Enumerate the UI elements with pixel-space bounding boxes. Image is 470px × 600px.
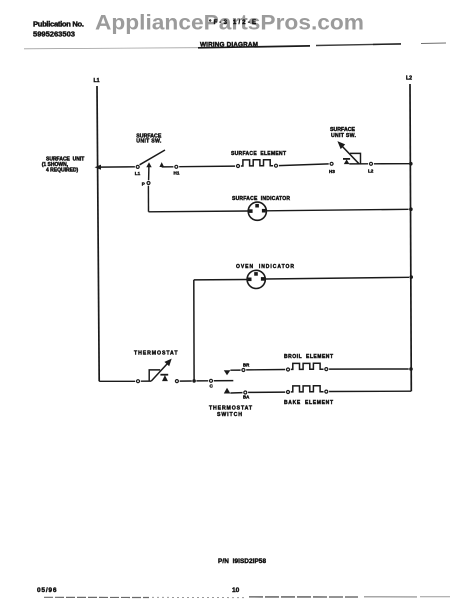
surface element heating squiggle xyxy=(241,160,273,166)
junction dot broil at L2 bus xyxy=(409,367,413,371)
svg-text:P/N I9ISD2IP58: P/N I9ISD2IP58 xyxy=(218,558,266,565)
junction dot thermostat oven branch xyxy=(192,379,196,383)
blade arrowhead right pole xyxy=(337,141,345,149)
svg-text:SWITCH: SWITCH xyxy=(217,412,242,418)
svg-text:5995263503: 5995263503 xyxy=(33,30,75,39)
wire surface indicator to L2 bus xyxy=(266,209,408,211)
wire contact H1 to terminal H1 xyxy=(162,166,174,168)
svg-text:10: 10 xyxy=(232,587,240,594)
wire terminal to thermostat blade xyxy=(141,380,151,382)
wire contact P down to terminal P xyxy=(148,167,150,180)
bottom scan edge line xyxy=(44,596,450,599)
thermostat box xyxy=(149,370,160,381)
svg-text:L2: L2 xyxy=(406,76,412,82)
switch blade right pole xyxy=(340,144,359,164)
bake element left terminal circle xyxy=(287,391,290,394)
contact H1 triangle xyxy=(159,162,164,167)
svg-text:OVEN INDICATOR: OVEN INDICATOR xyxy=(236,264,294,270)
svg-text:UNIT SW.: UNIT SW. xyxy=(331,133,357,139)
junction arrow at L1 bus xyxy=(95,165,101,170)
surface unit switch SW2 label xyxy=(330,127,357,139)
wire L1 bus to thermostat xyxy=(99,380,135,382)
svg-text:L2: L2 xyxy=(368,169,374,174)
svg-text:SURFACE INDICATOR: SURFACE INDICATOR xyxy=(232,196,290,202)
svg-text:L1: L1 xyxy=(94,78,100,84)
terminal BA circle xyxy=(244,391,247,394)
terminal P circle xyxy=(147,182,150,185)
terminal L2 circle xyxy=(370,162,373,165)
wire thermostat to junction xyxy=(180,380,192,382)
thermostat switch label xyxy=(209,406,253,418)
wire L1 bus to switch terminal L1 xyxy=(100,166,135,168)
svg-text:SURFACE ELEMENT: SURFACE ELEMENT xyxy=(231,151,286,157)
bake element right terminal circle xyxy=(325,390,328,393)
wire broil element to L2 bus xyxy=(329,368,409,370)
wire oven indicator branch vertical xyxy=(193,280,195,381)
publication number block xyxy=(33,20,84,39)
svg-text:BA: BA xyxy=(243,395,250,400)
wire common pole stub xyxy=(214,380,234,382)
surface element left terminal circle xyxy=(237,165,240,168)
thermostat switch bake contact triangle xyxy=(224,388,231,394)
thermostat blade xyxy=(151,364,167,381)
svg-text:THERMOSTAT: THERMOSTAT xyxy=(134,350,178,356)
svg-text:°F-3 1/2-E: °F-3 1/2-E xyxy=(209,20,256,26)
header rule xyxy=(24,43,446,49)
wire junction to terminal C xyxy=(196,380,208,382)
surface unit callout text xyxy=(42,157,85,174)
svg-text:Publication No.: Publication No. xyxy=(33,20,84,29)
surface unit switch SW1 label xyxy=(136,134,162,145)
svg-text:H1: H1 xyxy=(174,171,180,176)
wire H1 to surface element xyxy=(179,165,235,168)
terminal L1 circle xyxy=(136,165,139,168)
svg-text:BROIL ELEMENT: BROIL ELEMENT xyxy=(284,354,333,360)
wire BR to broil element xyxy=(246,369,285,371)
svg-text:05/96: 05/96 xyxy=(37,587,57,594)
svg-text:L1: L1 xyxy=(135,171,141,176)
surface indicator lamp xyxy=(248,202,266,220)
wire BA to bake element xyxy=(248,391,285,393)
switch blade surface unit sw pole 1 xyxy=(140,150,165,165)
contact P triangle xyxy=(146,162,151,167)
junction dot surface indicator at L2 bus xyxy=(409,207,413,211)
wire P to surface indicator xyxy=(149,210,249,213)
broil element heating squiggle xyxy=(291,363,324,369)
wire bake element to L2 bus xyxy=(329,390,411,392)
thermostat right terminal circle xyxy=(175,380,178,383)
svg-text:H3: H3 xyxy=(329,169,335,174)
wire L1 bus vertical xyxy=(97,86,99,381)
switch box right pole xyxy=(350,153,361,163)
svg-text:BR: BR xyxy=(243,363,250,368)
svg-text:P: P xyxy=(142,182,145,187)
terminal BR circle xyxy=(242,369,245,372)
surface element right terminal circle xyxy=(275,164,278,167)
wire terminal L2 to L2 bus xyxy=(374,163,409,165)
thermostat switch broil contact triangle xyxy=(224,370,231,375)
contact bar right switch xyxy=(343,158,350,160)
wire surface element to terminal H3 xyxy=(279,164,329,166)
wire L2 bus vertical xyxy=(410,84,411,391)
broil element left terminal circle xyxy=(287,368,290,371)
bake element heating squiggle xyxy=(291,386,324,392)
terminal C circle xyxy=(210,379,213,382)
svg-text:THERMOSTAT: THERMOSTAT xyxy=(209,406,253,412)
thermostat contact triangle xyxy=(162,375,168,381)
junction dot top right xyxy=(409,162,413,166)
wire broil contact to terminal BR xyxy=(230,369,240,371)
contact triangle right switch xyxy=(344,159,350,164)
junction dot oven indicator at L2 bus xyxy=(409,275,413,279)
terminal H1 circle xyxy=(175,165,178,168)
svg-text:BAKE ELEMENT: BAKE ELEMENT xyxy=(284,400,333,406)
terminal H3 circle xyxy=(330,162,333,165)
wire under right switch box xyxy=(349,163,368,165)
broil element right terminal circle xyxy=(325,368,328,371)
wire P down to surface indicator line xyxy=(147,186,149,212)
oven indicator lamp xyxy=(247,270,265,288)
thermostat blade arrowhead xyxy=(164,359,171,367)
thermostat left terminal circle xyxy=(137,380,140,383)
wire oven indicator to L2 bus xyxy=(265,277,409,279)
wire bake contact to terminal BA xyxy=(230,392,242,394)
svg-text:4 REQUIRED): 4 REQUIRED) xyxy=(46,167,79,173)
wire corner to oven indicator xyxy=(194,279,247,281)
thermostat contact bar xyxy=(160,374,168,376)
svg-text:UNIT SW.: UNIT SW. xyxy=(136,139,162,145)
